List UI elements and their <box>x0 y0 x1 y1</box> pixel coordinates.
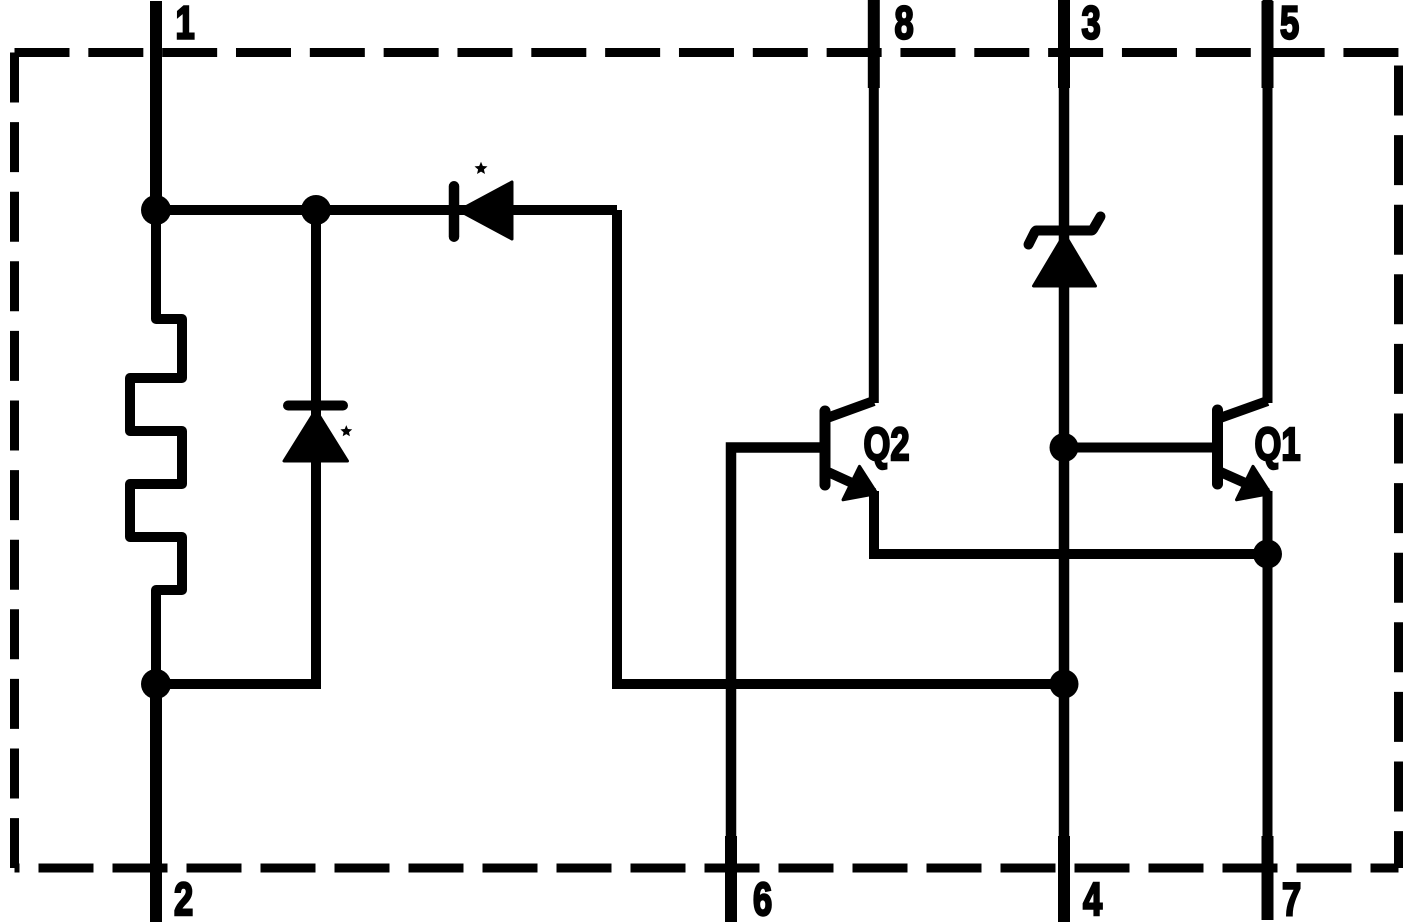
resistor R1 (square-wave body) <box>130 210 182 684</box>
dashed package border right <box>1394 53 1403 869</box>
pin 6 lead <box>725 836 737 922</box>
zener diode Z1 column wire (pins 3-4) <box>1059 0 1070 922</box>
Q2 base wire from pin 6 riser <box>731 448 820 923</box>
pin 7 lead <box>1262 836 1274 920</box>
pin 5 lead <box>1262 1 1274 88</box>
Q2 collector wire to pin 8 <box>869 0 879 403</box>
Q1 emitter arrow <box>1237 466 1271 500</box>
diode D2 anode triangle <box>459 182 512 239</box>
zener Z1 bar right hook <box>1093 217 1101 230</box>
dashed package border top <box>15 48 1399 57</box>
svg-text:1: 1 <box>176 0 195 49</box>
pin 4 lead <box>1058 836 1070 922</box>
node F: junction dot Q1 emitter / Q2 emitter rail <box>1253 540 1282 569</box>
svg-text:6: 6 <box>753 873 772 924</box>
dashed package border bottom <box>15 864 1399 873</box>
zener Z1 cathode bar <box>1036 226 1092 236</box>
svg-text:8: 8 <box>895 0 914 49</box>
Q1 collector wire to pin 5 <box>1263 0 1273 403</box>
svg-text:3: 3 <box>1082 0 1101 49</box>
pin 1 lead <box>150 1 162 210</box>
Q1 emitter diagonal <box>1221 472 1268 493</box>
node D: junction dot zener / Q1 base <box>1050 433 1079 462</box>
asterisk mark for D2 <box>475 162 488 174</box>
svg-text:5: 5 <box>1280 0 1299 49</box>
diode D2 cathode bar <box>449 186 460 236</box>
Q1 base wire from zener node D <box>1064 443 1214 453</box>
svg-text:Q2: Q2 <box>864 418 910 470</box>
svg-text:2: 2 <box>174 873 193 924</box>
zener Z1 bar left hook <box>1029 232 1036 245</box>
dashed package border left <box>10 53 19 869</box>
Q2 emitter wire down then right to Q1 emitter node <box>874 491 1268 554</box>
node E: junction dot zener column / bottom rail <box>1050 670 1079 699</box>
node B: junction dot diode D1 / top rail <box>301 195 331 225</box>
zener Z1 anode triangle <box>1034 234 1096 286</box>
wire pin1 junction to diode bar (node top rail) <box>156 205 617 215</box>
diode D1 anode triangle <box>284 410 348 461</box>
svg-text:Q1: Q1 <box>1255 418 1301 470</box>
svg-text:4: 4 <box>1083 873 1103 924</box>
Q2 emitter diagonal <box>828 472 874 493</box>
Q2 emitter arrow <box>843 466 877 500</box>
node A: junction dot pin1 / top rail <box>141 195 171 225</box>
Q1 collector diagonal <box>1220 401 1268 418</box>
svg-text:7: 7 <box>1282 873 1301 924</box>
diode D1 cathode bar <box>288 401 343 411</box>
wire from diode cathode corner down and right to node E <box>617 210 1064 684</box>
node C: junction dot pin2 / bottom left rail <box>141 669 171 699</box>
Q1 emitter wire down to pin 7 <box>1263 491 1273 920</box>
transistor Q2 base bar <box>820 411 831 485</box>
asterisk mark for D1 <box>340 425 352 436</box>
pin 3 lead <box>1058 0 1070 88</box>
pin 2 lead <box>150 684 162 922</box>
diode D1 column wire <box>156 210 316 684</box>
transistor Q1 base bar <box>1212 410 1223 484</box>
pin 8 lead <box>868 0 880 88</box>
Q2 collector diagonal <box>827 401 874 418</box>
